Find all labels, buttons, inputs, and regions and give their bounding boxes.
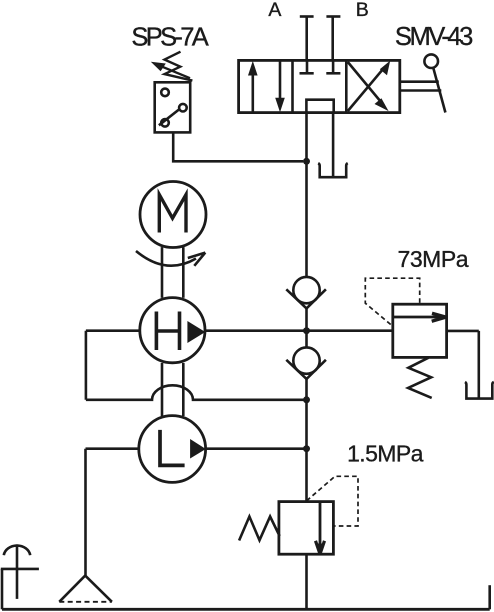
svg-text:73MPa: 73MPa — [398, 246, 469, 272]
svg-text:B: B — [356, 0, 369, 21]
svg-text:SPS-7A: SPS-7A — [131, 24, 208, 52]
svg-text:A: A — [268, 0, 281, 21]
svg-text:SMV-43: SMV-43 — [395, 23, 473, 51]
svg-text:1.5MPa: 1.5MPa — [347, 440, 424, 466]
